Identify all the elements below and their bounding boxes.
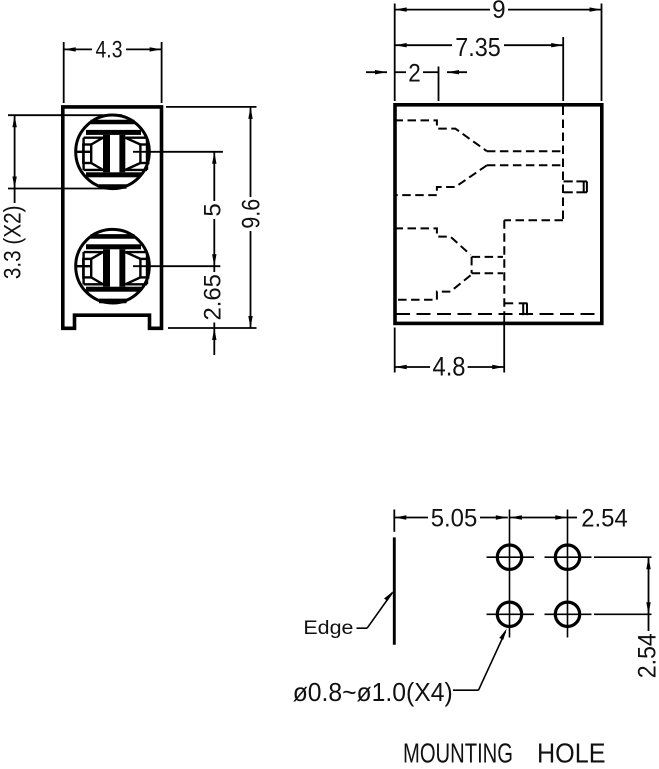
leader hole arrowhead [499,629,507,640]
dim 4.8 line [395,366,430,368]
arrow 4.8 right [492,365,504,369]
lead bend hook upper [564,181,587,192]
arrowheads top view [375,7,602,369]
svg-text:HOLE: HOLE [537,738,606,769]
mounting hole 2 [555,545,579,569]
LED A right column [119,135,125,172]
dim 3.3 line [14,115,16,188]
svg-text:Edge: Edge [303,618,353,639]
svg-text:7.35: 7.35 [455,34,501,62]
LED A hatch bottom [99,184,127,189]
dim 4.8 extension lines [394,328,396,373]
dim 3.3 text tail [14,189,16,204]
LED A hatch top [91,120,135,125]
arrowheads front view [12,47,252,340]
hole column center lines [509,510,511,638]
dim 9 extension lines [394,4,396,102]
LED B right column [119,249,125,286]
dim 2 outside tails [366,71,387,73]
arrow 9 right [590,7,602,11]
dim 7.35 line [395,44,452,46]
LED A left column [103,135,110,172]
arrow 5 bottom [212,254,216,266]
svg-text:5: 5 [200,203,227,216]
arrow 5.05 left [394,515,406,519]
hidden base line bottom [396,313,600,315]
arrow 2 left outside [375,70,387,74]
arrow 7.35 right [551,43,563,47]
arrow 9.6 top [248,107,252,119]
arrow 7.35 left [395,43,407,47]
dim 2.65 line [213,266,215,272]
edge extension line [393,510,395,532]
arrow 4.8 left [395,365,407,369]
arrow 4.3 right [150,47,162,51]
dim 5.05 line [394,518,648,632]
svg-text:9: 9 [492,0,506,24]
lead bend hook lower [504,303,527,315]
svg-text:5.05: 5.05 [431,505,478,533]
leader Edge [357,593,393,629]
leader hole diameter [453,632,506,691]
arrow 3.3 top [12,115,16,127]
LED B hatch top [91,234,135,239]
LED lens A circle [76,115,150,189]
LED A bottom bar [86,172,141,177]
svg-text:ø0.8~ø1.0(X4): ø0.8~ø1.0(X4) [293,677,453,707]
svg-text:2.65: 2.65 [200,274,227,321]
housing outline front view [63,107,162,328]
arrow 2.54 left [510,515,522,519]
LED A left wing cup [76,138,103,170]
arrow 3.3 bottom [12,177,16,189]
LED A top bar [86,130,141,135]
dim 2.65 outside tail [213,328,215,355]
svg-text:2: 2 [408,60,421,88]
dim 7.35 extension line [562,37,564,101]
LED B top bar [86,244,141,249]
dim 2.54 vertical line [648,557,650,614]
mounting hole 1 [497,545,521,569]
LED B left wing cup [76,252,103,284]
LED lens B circle [76,229,150,303]
arrow 9 left [395,7,407,11]
hidden lead frame upper [395,107,564,316]
edge line [393,537,396,644]
arrow 5.05 right [496,515,508,519]
hidden lead frame lower [395,228,504,299]
svg-text:2.54: 2.54 [581,505,628,533]
arrow 9.6 bottom [248,316,252,328]
housing outline top view [395,105,602,324]
svg-text:MOUNTING: MOUNTING [403,738,513,769]
arrow 2 right outside [447,70,459,74]
svg-text:4.8: 4.8 [433,351,466,381]
LED B bottom bar [86,287,141,292]
arrowheads mounting view [394,515,650,614]
dim 2 line [395,71,406,73]
LED B right wing cup [125,252,148,284]
LED A right wing cup [125,138,148,170]
arrow 2.65 bottom outside [212,328,216,340]
LED B left column [103,249,110,286]
dim 5 line [213,152,215,201]
dim 9.6 extension lines [166,106,257,108]
dim 9.6 line [250,107,252,197]
hole row center lines [487,557,652,614]
LED B hatch bottom [99,299,127,304]
leader Edge arrowhead [384,591,394,601]
mounting hole 4 [555,602,579,626]
svg-text:2.54: 2.54 [634,633,659,678]
dim 2 extension line [438,67,440,102]
arrow 2.54v bottom [646,602,650,614]
svg-text:3.3 (X2): 3.3 (X2) [0,206,27,280]
dim 4.3 line [64,48,92,50]
svg-text:9.6: 9.6 [238,199,266,229]
arrow 4.3 left [64,47,76,51]
dim 2.54 horizontal line [510,517,567,519]
svg-text:4.3: 4.3 [96,37,123,64]
arrow 2.54v top [646,557,650,569]
dim 3.3 extension lines [8,114,122,116]
mounting hole 3 [497,602,521,626]
arrow 2.54 right [555,515,567,519]
dim 9 line [395,9,490,11]
dim 5 extension ticks [133,151,223,153]
arrow 5 top [212,152,216,164]
dim 4.3 extension lines [63,42,65,103]
